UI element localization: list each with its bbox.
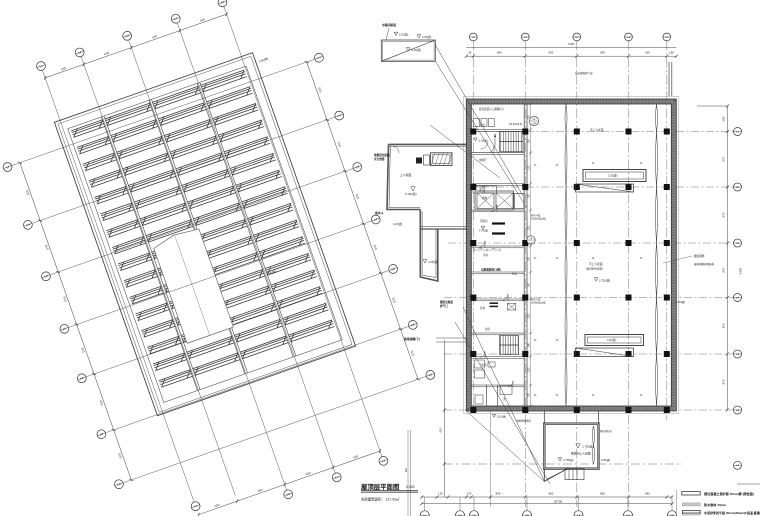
svg-text:7160: 7160 <box>568 42 575 46</box>
left annex outline <box>389 143 467 145</box>
stair 1 <box>500 132 524 152</box>
svg-text:5430: 5430 <box>739 267 743 274</box>
downspout wavy line left <box>565 104 567 406</box>
floor plan bottom axis bubbles <box>420 511 429 516</box>
legend row 1 <box>682 492 700 495</box>
svg-text:1220: 1220 <box>528 313 530 319</box>
svg-text:上人屋面: 上人屋面 <box>400 173 411 177</box>
svg-text:2.750(建): 2.750(建) <box>563 458 574 462</box>
toilet fixtures bottom-left <box>475 360 485 368</box>
floor plan top axis bubbles <box>469 33 477 41</box>
left vertical dim near plan <box>443 340 445 497</box>
svg-text:(兼消防登高面): (兼消防登高面) <box>586 267 603 271</box>
svg-text:雨水斗及: 雨水斗及 <box>531 297 541 301</box>
section cut dash line <box>444 463 683 465</box>
svg-text:2.750(建): 2.750(建) <box>599 279 610 283</box>
svg-text:3.20(建): 3.20(建) <box>393 222 403 226</box>
svg-text:620: 620 <box>645 50 650 54</box>
roof axis bubbles left <box>2 161 13 172</box>
svg-text:2A: 2A <box>533 118 536 121</box>
svg-text:830: 830 <box>549 50 554 54</box>
svg-text:1300: 1300 <box>528 225 530 231</box>
floor plan horizontal axis lines <box>466 131 734 133</box>
svg-text:细石混凝土保护层 30mm厚 (刚性层): 细石混凝土保护层 30mm厚 (刚性层) <box>703 491 754 496</box>
svg-text:雨水管(外): 雨水管(外) <box>600 429 612 433</box>
svg-text:茶水: 茶水 <box>483 253 489 257</box>
svg-text:N2-6(2F9-6): N2-6(2F9-6) <box>509 123 522 126</box>
svg-text:水箱间屋面: 水箱间屋面 <box>381 23 396 27</box>
svg-text:高出屋面排气道: 高出屋面排气道 <box>575 71 593 75</box>
svg-text:830: 830 <box>600 50 605 54</box>
svg-text:风机房: 风机房 <box>480 219 488 223</box>
top corridor fixtures <box>474 119 480 127</box>
left annex level marker <box>411 187 415 191</box>
bottom annex downspout <box>592 426 595 464</box>
svg-text:600: 600 <box>405 467 408 472</box>
roof axis bubbles bottom <box>190 501 201 512</box>
svg-text:870: 870 <box>722 379 726 384</box>
bubble label pair in plan <box>529 116 538 125</box>
skylight lower <box>585 335 644 346</box>
svg-text:640: 640 <box>645 492 650 496</box>
elevator shafts <box>475 191 514 210</box>
legend row 2 <box>682 503 700 506</box>
svg-text:不上人屋面: 不上人屋面 <box>589 262 603 266</box>
roof axis bubbles top <box>35 60 46 71</box>
svg-text:5.10(建): 5.10(建) <box>411 48 421 52</box>
columns (black squares) <box>470 129 476 135</box>
svg-text:螺旋钢梯: 螺旋钢梯 <box>694 254 705 258</box>
svg-text:5.10(建): 5.10(建) <box>497 415 506 419</box>
interior partition wall (left strip) <box>523 104 525 406</box>
interior vertical dim line <box>530 104 532 406</box>
svg-text:雨水斗: 雨水斗 <box>375 211 384 215</box>
machine room fixtures <box>492 222 505 224</box>
svg-text:排气口: 排气口 <box>440 304 448 308</box>
svg-text:屋顶层平面图: 屋顶层平面图 <box>361 482 399 491</box>
svg-text:850: 850 <box>600 492 605 496</box>
wall vent fixtures <box>473 186 483 193</box>
svg-text:3.20(建): 3.20(建) <box>608 174 618 178</box>
svg-text:3.20(建): 3.20(建) <box>422 35 432 39</box>
roof outer boundary <box>54 53 355 416</box>
svg-text:5.100(建): 5.100(建) <box>405 192 417 196</box>
bottom annex level marker <box>576 444 580 448</box>
legend row 3 <box>682 511 700 514</box>
svg-text:出屋面检修口(梯): 出屋面检修口(梯) <box>481 267 501 271</box>
svg-text:不上人屋面: 不上人屋面 <box>590 128 604 132</box>
svg-text:1:100: 1:100 <box>406 485 415 489</box>
svg-text:风井: 风井 <box>512 272 517 276</box>
svg-text:出屋面楼梯间: 出屋面楼梯间 <box>516 419 532 423</box>
door X symbol <box>507 303 515 310</box>
svg-text:前室: 前室 <box>480 123 486 127</box>
floor plan top dimensions <box>466 46 676 48</box>
svg-text:烟道出屋面: 烟道出屋面 <box>440 300 453 304</box>
svg-text:130: 130 <box>438 492 443 496</box>
svg-text:水泥砂浆找平层 20mm/30mm(F保温 最薄处): 水泥砂浆找平层 20mm/30mm(F保温 最薄处) <box>704 510 760 515</box>
roof grid column axis lines <box>43 70 195 502</box>
svg-text:电梯: 电梯 <box>482 196 488 200</box>
roof hatch slats <box>71 70 334 387</box>
svg-text:870: 870 <box>722 323 726 328</box>
svg-text:屋顶花园入口雨棚(下): 屋顶花园入口雨棚(下) <box>479 107 504 111</box>
svg-text:防水卷材 20mm: 防水卷材 20mm <box>704 502 726 507</box>
equals mark <box>490 302 499 304</box>
svg-text:详立管图: 详立管图 <box>374 157 385 161</box>
svg-text:170: 170 <box>467 492 472 496</box>
left strip room partitions <box>471 129 524 131</box>
svg-text:600: 600 <box>439 427 443 432</box>
svg-text:3.20(建): 3.20(建) <box>607 338 617 342</box>
stair 1 arrow <box>494 134 496 147</box>
floor plan right dimensions <box>697 105 727 107</box>
svg-text:20700: 20700 <box>554 500 563 504</box>
svg-text:DN100雨水管: DN100雨水管 <box>531 217 546 221</box>
floor plan outer wall <box>464 97 679 414</box>
floor plan vertical axis lines <box>472 41 474 412</box>
svg-text:玻璃雨棚(下): 玻璃雨棚(下) <box>404 337 420 341</box>
roof axis bubbles right <box>313 52 324 63</box>
roof top dimension line <box>45 14 226 78</box>
svg-text:2.20(建): 2.20(建) <box>676 300 685 304</box>
svg-text:680: 680 <box>722 116 726 121</box>
central roof opening (white notch) <box>152 227 234 344</box>
tilted roof plan group <box>0 0 458 516</box>
svg-text:3.05(建): 3.05(建) <box>601 458 610 462</box>
svg-text:850: 850 <box>549 492 554 496</box>
roof grid row axis lines <box>12 59 314 165</box>
skylight upper <box>583 170 646 182</box>
small dim under partition <box>474 249 500 251</box>
leader diagonals from detail box <box>435 45 523 196</box>
bottom annex stair house <box>544 424 598 469</box>
svg-text:840: 840 <box>497 50 502 54</box>
svg-text:排烟道出屋面: 排烟道出屋面 <box>374 153 390 157</box>
left annex equipment box <box>431 153 453 166</box>
svg-text:管井: 管井 <box>480 306 486 310</box>
roof hatch column separators <box>101 117 197 391</box>
svg-text:雨水斗及: 雨水斗及 <box>531 213 541 217</box>
svg-text:840: 840 <box>496 492 501 496</box>
svg-text:1100: 1100 <box>528 165 530 171</box>
roof left dimension line <box>20 163 131 480</box>
door arcs <box>487 146 494 153</box>
floor plan right axis bubbles <box>734 128 742 136</box>
svg-text:前室: 前室 <box>485 327 491 331</box>
floor plan bottom axis bubble stems <box>424 497 426 511</box>
svg-text:1020: 1020 <box>528 367 530 373</box>
floor plan bottom dimensions <box>422 496 672 498</box>
svg-text:870: 870 <box>722 212 726 217</box>
roof right dimension line <box>307 62 418 379</box>
roof bottom dimension line <box>199 451 380 515</box>
legend left tick line <box>675 490 677 516</box>
svg-text:洗: 洗 <box>503 397 506 401</box>
svg-text:2.750(建): 2.750(建) <box>582 445 594 449</box>
svg-text:870: 870 <box>722 156 726 161</box>
svg-text:30: 30 <box>468 50 472 54</box>
svg-text:5.10(建): 5.10(建) <box>479 139 488 143</box>
svg-text:楼梯间上人屋面: 楼梯间上人屋面 <box>571 452 591 456</box>
water tank detail box <box>381 40 435 61</box>
svg-text:玻璃雨棚按钢结构: 玻璃雨棚按钢结构 <box>694 262 715 266</box>
downspout wavy line right <box>656 104 658 406</box>
bubble label pair mid <box>527 236 535 244</box>
svg-text:卫生间: 卫生间 <box>479 363 487 367</box>
big diagonal leaders bottom <box>466 411 544 482</box>
vertical dim pair below roof title area <box>407 430 409 516</box>
stair 2 <box>500 336 519 355</box>
svg-text:电梯厅: 电梯厅 <box>479 158 487 162</box>
svg-text:870: 870 <box>722 267 726 272</box>
left annex door arc <box>392 146 399 153</box>
svg-text:150: 150 <box>669 50 674 54</box>
svg-text:2.70(排): 2.70(排) <box>479 229 488 233</box>
svg-text:5.10(建): 5.10(建) <box>399 33 409 37</box>
svg-text:本层建筑面积： 217.93㎡: 本层建筑面积： 217.93㎡ <box>361 497 400 502</box>
svg-text:DN100雨水管: DN100雨水管 <box>531 301 546 305</box>
svg-text:2.05(建): 2.05(建) <box>428 260 438 264</box>
